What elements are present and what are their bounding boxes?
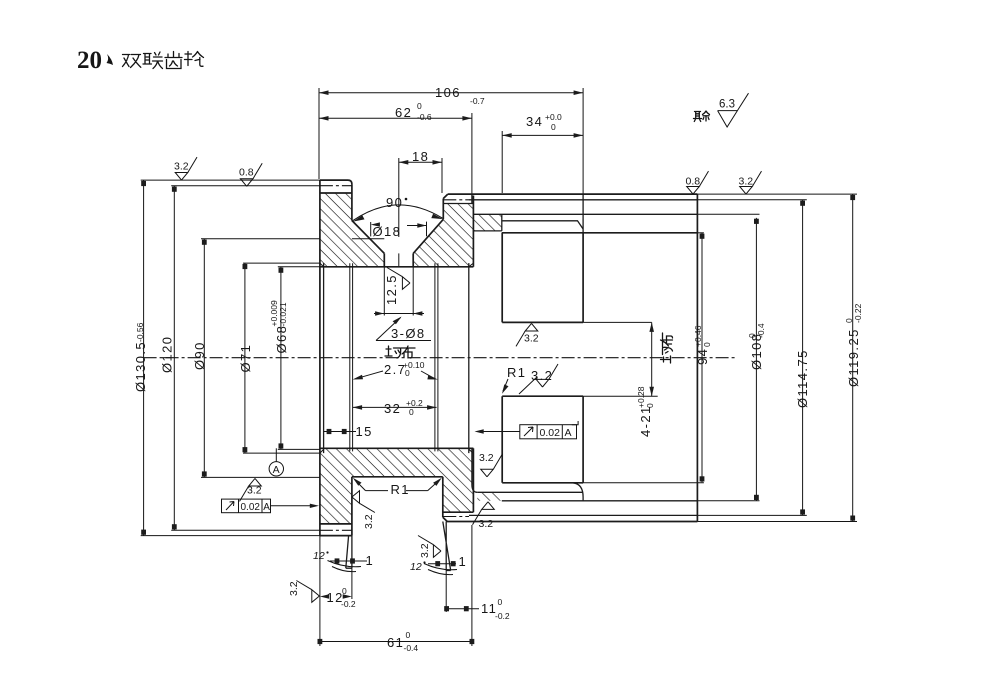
dim 15 line bbox=[324, 431, 356, 433]
dia68 dim line bbox=[280, 267, 282, 450]
dia90 extension bottom bbox=[201, 476, 320, 478]
svg-text:3.2: 3.2 bbox=[524, 333, 539, 345]
svg-text:0.02: 0.02 bbox=[241, 502, 261, 513]
roughness 3.2 on notch ceiling right bbox=[481, 454, 503, 477]
left gear root line top bbox=[320, 192, 352, 194]
web hole upper line extension bbox=[583, 321, 652, 323]
dim 106 extension right bbox=[582, 88, 584, 194]
svg-text:94: 94 bbox=[695, 348, 710, 365]
dia114.75 text bbox=[795, 349, 810, 408]
bottom notch left wall bbox=[351, 477, 353, 536]
roughness 3.2 on OD line top-left bbox=[175, 157, 197, 180]
web hole lower line extension bbox=[583, 395, 658, 397]
hatch spacer band bottom bbox=[477, 492, 502, 501]
svg-text:R1: R1 bbox=[391, 482, 410, 497]
roughness 3.2 under dia90 bottom ext line bbox=[240, 478, 262, 501]
dia68 text bbox=[269, 300, 289, 354]
dim 34 line bbox=[502, 134, 583, 136]
dim 11 line bbox=[446, 608, 479, 610]
left taper detail bottom-left tooth bbox=[346, 536, 352, 569]
dia71 dim line bbox=[244, 263, 246, 453]
web rect bottom left wall bbox=[501, 396, 503, 483]
dia71 extension top bbox=[243, 262, 320, 264]
dia119.25 text bbox=[844, 303, 863, 387]
left gear right face top bbox=[472, 196, 474, 267]
web bottom right fillet bbox=[573, 483, 583, 501]
dia18 right leader bbox=[407, 222, 427, 237]
svg-text:3.2: 3.2 bbox=[479, 452, 494, 464]
hole mouth right wall bbox=[412, 253, 414, 266]
svg-text:3-Ø8: 3-Ø8 bbox=[391, 326, 426, 341]
svg-text:3.2: 3.2 bbox=[363, 514, 375, 529]
dia71 extension bottom bbox=[243, 452, 320, 454]
leader 3-dia8 bbox=[376, 318, 431, 341]
dim 106 extension left bbox=[318, 88, 320, 179]
spacer band right wall top bbox=[501, 214, 503, 231]
svg-text:61: 61 bbox=[387, 635, 404, 650]
svg-text:20: 20 bbox=[77, 47, 102, 74]
oil slot left in bore bbox=[350, 263, 353, 451]
svg-text:Ø119.25: Ø119.25 bbox=[846, 328, 861, 387]
frame runout right bbox=[475, 421, 579, 439]
dia68 extension bottom bbox=[278, 448, 320, 450]
dim 62 line bbox=[319, 117, 472, 119]
svg-text:3.2: 3.2 bbox=[479, 518, 494, 530]
dim 11 extensions bbox=[446, 525, 472, 646]
stub right edge top bbox=[471, 194, 473, 203]
junbu text horizontal bbox=[385, 346, 401, 358]
svg-text:-0.22: -0.22 bbox=[853, 303, 863, 323]
svg-text:3.2: 3.2 bbox=[531, 368, 553, 383]
dia114.75 dim line bbox=[802, 200, 804, 516]
char shuang bbox=[123, 55, 141, 68]
taper left: dim 1 bbox=[330, 560, 367, 562]
roughness 3.2 under web upper line bbox=[516, 323, 538, 346]
dim 12 extensions bbox=[320, 536, 352, 646]
R1 leader right gear web bbox=[503, 379, 508, 391]
roughness 3.2 on right gear tip line bbox=[740, 171, 762, 194]
V-groove right slope bbox=[413, 219, 443, 253]
roughness 3.2 under dia108 bottom line bbox=[473, 502, 495, 525]
svg-text:0: 0 bbox=[551, 122, 556, 132]
hole mouth left wall bbox=[383, 253, 385, 266]
svg-text:0.8: 0.8 bbox=[686, 176, 701, 188]
spacer band bottom fillet bbox=[472, 485, 477, 493]
web rect bottom right wall bbox=[582, 396, 584, 483]
dim 2.7 left leader bbox=[356, 371, 384, 379]
dia90 dim line bbox=[203, 239, 205, 478]
right gear tip extension for dia 119.25 bbox=[697, 193, 857, 195]
svg-text:Ø120: Ø120 bbox=[160, 336, 175, 373]
dia108 top extension bbox=[697, 213, 759, 215]
dim 32 arrows bbox=[353, 405, 363, 410]
svg-text:R1: R1 bbox=[507, 365, 526, 380]
svg-text:0: 0 bbox=[405, 368, 410, 378]
dia18 left tick bbox=[370, 222, 372, 236]
right taper detail bottom stub bbox=[443, 522, 451, 571]
char chi bbox=[165, 52, 182, 69]
dim 2.7 right leader bbox=[421, 371, 435, 379]
svg-text:32: 32 bbox=[384, 401, 401, 416]
svg-text:12: 12 bbox=[410, 561, 422, 573]
right gear bottom tip extension bbox=[697, 521, 857, 523]
svg-text:3.2: 3.2 bbox=[174, 161, 189, 173]
title bbox=[0, 0, 1, 1]
hatch left gear bottom mass bbox=[320, 448, 474, 524]
web hole upper line bbox=[502, 321, 583, 323]
dim 18 arrows bbox=[399, 160, 409, 165]
bottom stub root line bbox=[443, 511, 474, 513]
left gear tooth tip bottom bbox=[320, 535, 352, 537]
dim 18 line bbox=[399, 161, 442, 163]
dia90 extension top bbox=[201, 238, 320, 240]
web bottom extension line bbox=[583, 482, 704, 484]
right gear root line bbox=[469, 199, 697, 201]
right gear root extension for dia 114.75 bbox=[697, 199, 806, 201]
svg-text:0: 0 bbox=[342, 586, 347, 596]
dim 62 extension right bbox=[471, 113, 473, 194]
web rect top right wall bbox=[582, 233, 584, 323]
junbu rotated text bbox=[661, 333, 673, 363]
svg-text:-0.56: -0.56 bbox=[135, 322, 145, 342]
dia130.5 extension top bbox=[141, 179, 320, 181]
qiyu text bbox=[694, 111, 710, 122]
char lian bbox=[143, 52, 163, 69]
svg-text:1: 1 bbox=[366, 553, 375, 568]
right gear 34 left edge vertical bbox=[582, 194, 584, 233]
dia18 left arrow bbox=[371, 222, 380, 226]
bore chamfer edge left bbox=[323, 263, 325, 453]
svg-text:0: 0 bbox=[498, 597, 503, 607]
dia130.5 dim line bbox=[143, 180, 145, 535]
groove floor dia108 bottom bbox=[502, 500, 698, 502]
hole dim arrows bbox=[375, 311, 384, 315]
svg-text:-0.2: -0.2 bbox=[341, 599, 356, 609]
svg-text:A: A bbox=[263, 502, 270, 513]
tooth relief line top bbox=[502, 221, 583, 229]
left gear pitch dash-dot bottom tooth bbox=[320, 529, 352, 531]
svg-text:12.5: 12.5 bbox=[384, 274, 399, 305]
spacer band bottom half top edge bbox=[477, 491, 583, 493]
left gear tooth right flank top bbox=[351, 184, 353, 220]
hole mouth divider bbox=[398, 253, 400, 266]
svg-text:106: 106 bbox=[435, 85, 461, 100]
svg-text:1: 1 bbox=[459, 554, 468, 569]
svg-text:0: 0 bbox=[406, 630, 411, 640]
svg-text:A: A bbox=[273, 464, 280, 476]
dim 18 extension left / V centerline bbox=[398, 158, 400, 237]
svg-text:3.2: 3.2 bbox=[419, 543, 431, 558]
svg-text:-0.6: -0.6 bbox=[417, 112, 432, 122]
web top surface dia94 bbox=[502, 232, 698, 234]
frame runout left bbox=[222, 499, 320, 513]
R1 leader bottom notch bbox=[355, 480, 441, 491]
dim 18 extension right bbox=[441, 158, 443, 193]
dim 34 arrows bbox=[502, 133, 512, 138]
dim 4-21 text bbox=[636, 386, 655, 437]
svg-text:4-21: 4-21 bbox=[638, 405, 653, 437]
oil slot right in bore bbox=[435, 263, 438, 451]
bore top wall bbox=[320, 266, 474, 268]
svg-text:15: 15 bbox=[356, 424, 373, 439]
bottom notch right wall bbox=[442, 477, 444, 517]
svg-text:Ø90: Ø90 bbox=[192, 341, 207, 370]
dim 34 extension left bbox=[501, 131, 503, 193]
dia94 top extension bbox=[697, 232, 704, 234]
dim 12 line and arrows bbox=[320, 594, 329, 598]
angle 90 arc arrows bbox=[353, 215, 365, 221]
bottom notch ceiling bbox=[352, 476, 443, 478]
svg-text:0: 0 bbox=[702, 342, 712, 347]
svg-text:-0.4: -0.4 bbox=[404, 643, 419, 653]
roughness 12.5 rotated with check bbox=[384, 274, 399, 305]
background edge seen through V-groove bbox=[352, 238, 384, 240]
svg-text:34: 34 bbox=[526, 114, 543, 129]
hatch spacer band top bbox=[473, 214, 501, 231]
svg-text:0.02: 0.02 bbox=[540, 427, 561, 439]
dia18 right arrow bbox=[417, 223, 426, 227]
hatch left gear top-left mass bbox=[320, 193, 384, 267]
lower groove left wall bbox=[471, 448, 473, 484]
svg-text:Ø130.5: Ø130.5 bbox=[133, 341, 148, 392]
dim 62 arrows bbox=[319, 116, 329, 121]
svg-text:3.2: 3.2 bbox=[288, 581, 300, 596]
dim 4-21 line bbox=[651, 322, 653, 396]
bore chamfer corner diagonals bbox=[320, 263, 474, 453]
centerline of gear axis bbox=[144, 357, 737, 359]
dia71 text bbox=[238, 344, 253, 373]
bottom stub tooth tip with chamfer bbox=[443, 517, 698, 521]
dim 106 line bbox=[319, 92, 583, 94]
dim 32 line bbox=[353, 406, 437, 408]
spacer band bottom edge top half bbox=[473, 230, 501, 232]
stub root line top bbox=[443, 203, 473, 205]
right gear root bottom extension bbox=[697, 514, 806, 516]
taper right: angle arcs bbox=[424, 564, 457, 575]
dia120 dim line bbox=[173, 186, 175, 531]
angle 90 arc bbox=[353, 205, 443, 221]
right gear right face bbox=[696, 194, 698, 521]
dia94 dim line bbox=[701, 233, 703, 482]
svg-text:+0.0: +0.0 bbox=[545, 112, 562, 122]
svg-text:0: 0 bbox=[645, 403, 655, 408]
web hole lower line bbox=[502, 395, 583, 397]
left gear root line bottom bbox=[320, 523, 352, 525]
svg-text:-0.7: -0.7 bbox=[470, 96, 485, 106]
dim 4-21 arrows bbox=[649, 322, 654, 332]
svg-text:3.2: 3.2 bbox=[247, 485, 262, 497]
svg-text:-0.2: -0.2 bbox=[495, 611, 510, 621]
datum A circle bbox=[269, 462, 283, 476]
web rect top left wall bbox=[501, 233, 503, 323]
bore bottom wall bbox=[320, 447, 474, 449]
dim 61 line bbox=[320, 641, 472, 643]
web bottom surface dia94 bbox=[502, 482, 583, 484]
svg-text:62: 62 bbox=[395, 105, 412, 120]
dia90 text bbox=[192, 341, 207, 370]
dia108 text bbox=[747, 323, 766, 370]
hole dim line bbox=[374, 313, 424, 315]
dia120 extension top bbox=[171, 185, 320, 187]
svg-text:Ø18: Ø18 bbox=[373, 224, 402, 239]
svg-text:Ø114.75: Ø114.75 bbox=[795, 349, 810, 408]
V-groove left slope bbox=[352, 221, 384, 254]
dia130.5 extension bottom bbox=[141, 535, 320, 537]
bottom stub pitch dash-dot bbox=[443, 516, 469, 518]
svg-text:Ø68: Ø68 bbox=[274, 325, 289, 354]
right gear tooth tip line bbox=[448, 193, 698, 195]
roughness 6.3 general mark bbox=[718, 93, 749, 127]
svg-text:A: A bbox=[565, 427, 572, 439]
svg-text:0.8: 0.8 bbox=[239, 167, 254, 179]
dim 106 arrows bbox=[319, 90, 329, 95]
svg-text:90: 90 bbox=[386, 195, 403, 210]
roughness 0.8 on right gear tip line bbox=[687, 171, 709, 194]
dia119.25 dim line bbox=[852, 194, 854, 521]
dia18 hole extension lines into bore bbox=[384, 267, 413, 316]
dia120 extension bottom bbox=[171, 529, 320, 531]
dia108 bottom extension bbox=[697, 500, 759, 502]
roughness 0.8 on pitch ext line top-left bbox=[240, 163, 262, 186]
left gear pitch dash-dot top tooth bbox=[320, 185, 352, 187]
left gear right face bottom bbox=[472, 448, 474, 512]
roughness 3.2 right web leader bbox=[536, 364, 558, 387]
char lun bbox=[185, 52, 204, 67]
dia120 text bbox=[160, 336, 175, 373]
groove floor dia108 top bbox=[473, 213, 697, 215]
right gear root dash-dot stub bbox=[443, 199, 469, 201]
roughness left face rotated check bbox=[296, 581, 319, 603]
tooth stub chamfer bbox=[443, 194, 448, 198]
dia130.5 text bbox=[133, 322, 148, 392]
svg-text:6.3: 6.3 bbox=[719, 99, 735, 111]
dia68 extension top bbox=[278, 266, 320, 268]
roughness 3.2 on right taper rotated bbox=[418, 536, 441, 558]
svg-text:0: 0 bbox=[417, 101, 422, 111]
dia108 dim line bbox=[755, 218, 757, 501]
left gear left face bbox=[319, 180, 321, 535]
svg-text:18: 18 bbox=[412, 149, 429, 164]
hatch left gear top-right mass bbox=[413, 204, 473, 267]
tooth stub left face bbox=[442, 199, 444, 220]
svg-text:3.2: 3.2 bbox=[739, 176, 754, 188]
dunhao mark bbox=[107, 54, 114, 65]
svg-text:12: 12 bbox=[313, 550, 325, 562]
svg-text:-0.021: -0.021 bbox=[278, 302, 288, 326]
left gear tooth tip top bbox=[320, 180, 352, 184]
bore chamfer edge right bbox=[468, 263, 470, 453]
roughness 3.2 on notch left wall rotated bbox=[352, 491, 375, 513]
svg-text:Ø71: Ø71 bbox=[238, 344, 253, 373]
right gear root line bottom bbox=[469, 514, 697, 516]
svg-text:0: 0 bbox=[409, 407, 414, 417]
taper right: dim 1 bbox=[428, 563, 456, 565]
svg-text:-0.4: -0.4 bbox=[756, 323, 766, 338]
dia94 text bbox=[693, 325, 712, 365]
taper left: angle arcs bbox=[328, 561, 362, 572]
